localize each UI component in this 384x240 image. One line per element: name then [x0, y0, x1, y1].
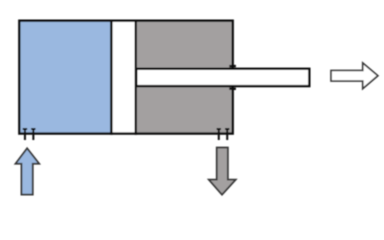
rod seal tick (below rod): [229, 88, 236, 90]
gray outlet flow arrow (down): [209, 148, 236, 195]
rod seal tick (above rod): [229, 65, 236, 67]
piston rod: [136, 69, 309, 86]
left port tick 2: [31, 128, 35, 140]
cylinder left chamber (blue, cap side): [19, 21, 111, 134]
right port tick 2: [225, 128, 229, 140]
rod motion arrow (white, right): [331, 63, 378, 89]
left port tick 1: [23, 128, 27, 140]
blue inlet flow arrow (up): [16, 148, 40, 194]
cylinder right chamber (gray, rod side): [136, 21, 233, 134]
right port tick 1: [217, 128, 221, 140]
piston (white): [111, 21, 135, 134]
